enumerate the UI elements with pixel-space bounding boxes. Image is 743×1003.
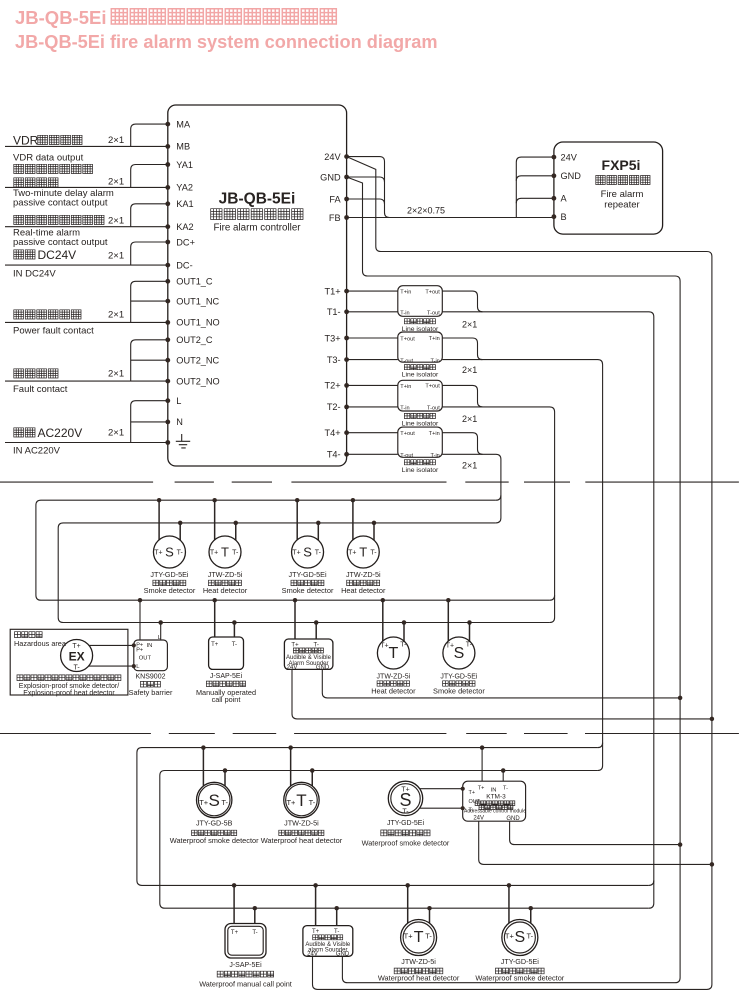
svg-text:2×1: 2×1 [462, 460, 477, 470]
wire sounder4 T+ tap [315, 885, 317, 925]
wire OUT2 group mid [131, 359, 168, 361]
svg-text:2×1: 2×1 [108, 135, 124, 146]
terminal FB dot [344, 215, 349, 220]
terminal MB dot [165, 144, 170, 149]
wire U3 fan into row-2 T+ bus [550, 595, 555, 600]
wire AC220V group mid [131, 421, 168, 423]
svg-text:T+: T+ [231, 930, 239, 936]
junction detector D12 (Heat detector) T- tap [234, 521, 239, 526]
terminal OUT1_NC dot [165, 299, 170, 304]
svg-text:Power fault contact: Power fault contact [13, 326, 94, 337]
wire KNS9002 IN tap [139, 600, 141, 640]
wire U4 top output elbow [442, 433, 482, 455]
svg-text:2×2×0.75: 2×2×0.75 [407, 206, 445, 216]
wire controller to U2 top [347, 337, 398, 339]
svg-text:T: T [296, 791, 306, 810]
terminal FA dot [344, 197, 349, 202]
svg-text:T+in: T+in [400, 290, 411, 296]
svg-text:GND: GND [561, 171, 582, 181]
svg-text:passive contact output: passive contact output [13, 198, 108, 209]
svg-text:24V: 24V [324, 152, 341, 162]
wire spare loop B (broken line y=733.5) [0, 733, 739, 735]
label IN DC24V (CN) [14, 250, 35, 259]
svg-text:Heat detector: Heat detector [203, 586, 248, 595]
svg-text:T+: T+ [210, 550, 218, 557]
junction KTM-3 T- on bus [501, 768, 506, 773]
svg-text:FA: FA [329, 194, 341, 204]
svg-text:Waterproof smoke detector: Waterproof smoke detector [475, 973, 564, 982]
svg-text:P+: P+ [136, 648, 143, 654]
wire waterproof detector D41 (Waterproof heat detector) T- tap [429, 908, 431, 923]
terminal YA1 dot [165, 162, 170, 167]
waterproof detector D41 (Waterproof heat detector) outer circle [401, 920, 437, 956]
svg-text:T+: T+ [380, 642, 388, 649]
junction J-SAP T+ on bus [212, 598, 217, 603]
svg-text:S: S [209, 791, 220, 810]
junction waterproof detector D31 (Waterproof smoke detector) T+ tap [201, 745, 206, 750]
wire waterproof detector D42 (Waterproof smoke detector) T- tap [530, 908, 532, 923]
wire detector D13 (Smoke detector) T- tap [317, 523, 319, 540]
terminal L dot [165, 398, 170, 403]
svg-text:S: S [454, 645, 465, 662]
wire row-3 T+ bus joining row-4 T+ bus (left drop) [137, 748, 649, 886]
svg-text:L: L [136, 664, 140, 670]
wire EX T+ to safety barrier [89, 644, 134, 646]
wire detector D13 (Smoke detector) T+ tap [296, 500, 298, 540]
wire repeater-side bundle fan vertical [516, 157, 554, 217]
waterproof smoke detector (to KTM-3) outer circle [388, 781, 422, 815]
svg-text:YA2: YA2 [176, 183, 193, 193]
svg-text:call point: call point [212, 695, 241, 704]
repeater terminal 24V dot [552, 155, 557, 160]
svg-text:FB: FB [329, 213, 341, 223]
wire J-SAP T- tap [233, 623, 235, 638]
junction waterproof detector D42 (Waterproof smoke detector) T+ tap [507, 883, 512, 888]
wire waterproof detector D32 (Waterproof heat detector) T- tap [311, 771, 313, 787]
terminal N dot [165, 420, 170, 425]
waterproof detector D32 (Waterproof heat detector) outer circle [284, 782, 319, 817]
svg-text:J-SAP-5Ei: J-SAP-5Ei [210, 673, 243, 680]
safety barrier KNS9002 box [134, 640, 168, 671]
KNS9002 left terminal T+ dot [132, 643, 136, 647]
wire FA into bundle [347, 199, 385, 204]
svg-text:24V: 24V [307, 952, 318, 958]
terminal GND dot [344, 175, 349, 180]
label VDR data output (CN) [0, 0, 1, 1]
terminal T2+ dot [344, 383, 349, 388]
svg-text:JB-QB-5Ei: JB-QB-5Ei [15, 7, 107, 28]
svg-text:JTY-GD-5Ei: JTY-GD-5Ei [501, 957, 539, 966]
junction waterproof detector D41 (Waterproof heat detector) T- tap [427, 906, 432, 911]
wire sounder4 T- tap [336, 908, 338, 925]
wire WP call point T+ tap [233, 885, 235, 923]
svg-text:T-: T- [314, 642, 319, 648]
svg-text:OUT1_NO: OUT1_NO [176, 318, 219, 328]
svg-text:T3+: T3+ [325, 333, 341, 343]
junction detector D21 (Heat detector) T+ tap [381, 598, 386, 603]
svg-text:T-out: T-out [427, 311, 440, 317]
svg-text:passive contact output: passive contact output [13, 237, 108, 248]
svg-text:T+in: T+in [429, 336, 440, 342]
junction detector D21 (Heat detector) T- tap [402, 620, 407, 625]
alarm sounder (row 4) box [303, 926, 353, 957]
junction sounder T+ on bus [293, 598, 298, 603]
svg-text:B: B [561, 212, 567, 222]
svg-text:FXP5i: FXP5i [602, 157, 641, 173]
svg-text:T-in: T-in [400, 406, 409, 412]
wire OUT2 group top [131, 340, 168, 381]
KNS9002 left terminal T- dot [132, 664, 136, 668]
detector D11 (Smoke detector) circle [153, 536, 185, 568]
label Hazardous area [15, 632, 43, 638]
wire row-1 T- bus joining row-2 T- bus (left drop) [58, 523, 549, 623]
svg-text:T-: T- [527, 932, 534, 941]
junction detector D13 (Smoke detector) T- tap [316, 521, 321, 526]
svg-text:Waterproof smoke detector: Waterproof smoke detector [362, 838, 450, 847]
wire U4 output bundle down to row-1 buses [442, 454, 501, 523]
junction KNS9002 L on T- bus [158, 620, 163, 625]
svg-text:Explosion-proof smoke detector: Explosion-proof smoke detector/ [19, 683, 119, 690]
terminal PE (protective earth) dot [165, 440, 170, 445]
junction KTM-3 24V on 24V bus [710, 862, 715, 867]
wire U3 output bundle down to row-2 buses [442, 407, 554, 623]
wire waterproof detector D32 (Waterproof heat detector) T+ tap [290, 748, 292, 786]
svg-text:T+out: T+out [400, 431, 415, 437]
wire GND power from controller to bottom sounder [342, 177, 680, 983]
svg-text:KA1: KA1 [176, 199, 193, 209]
line isolator U3 box [398, 380, 443, 411]
svg-text:T+: T+ [286, 798, 296, 807]
svg-text:T+: T+ [312, 929, 320, 935]
wire sounder T- tap [315, 623, 317, 640]
svg-text:MB: MB [176, 142, 190, 152]
svg-text:T2+: T2+ [325, 381, 341, 391]
repeater terminal B dot [552, 214, 557, 219]
junction detector D14 (Heat detector) T+ tap [351, 498, 356, 503]
svg-text:Smoke detector: Smoke detector [433, 687, 485, 696]
wire detector D21 (Heat detector) T+ tap [382, 600, 384, 641]
wire controller to U4 bottom [347, 453, 398, 455]
terminal T3+ dot [344, 336, 349, 341]
svg-text:L: L [176, 396, 181, 406]
wire row-1 T+ bus joining row-2 T+ bus (left drop) [36, 500, 550, 600]
junction sounder GND on GND bus [678, 696, 683, 701]
junction detector D11 (Smoke detector) T- tap [178, 521, 183, 526]
wire KTM-3 T+ tap [481, 748, 483, 782]
wire KNS9002 L tap [160, 623, 162, 641]
wire detector D14 (Heat detector) T- tap [373, 523, 375, 540]
manual call point J-SAP-5Ei box [209, 637, 244, 669]
svg-text:Waterproof heat detector: Waterproof heat detector [378, 973, 460, 982]
wire KA1/KA2 group top [131, 204, 168, 227]
KTM-3 left T+ dot [461, 787, 465, 791]
terminal DC- dot [165, 263, 170, 268]
svg-text:T-: T- [232, 550, 239, 557]
wire detector T+ to KTM-3 OUT [420, 788, 463, 790]
svg-text:JTY-GD-5Ei: JTY-GD-5Ei [289, 570, 327, 579]
svg-text:T+: T+ [211, 642, 219, 648]
svg-text:T-in: T-in [430, 358, 439, 364]
junction KTM-3 T+ on bus [480, 745, 485, 750]
svg-text:T+in: T+in [400, 384, 411, 390]
input/output module KTM-3 box [463, 781, 526, 821]
svg-text:DC-: DC- [176, 260, 192, 270]
svg-text:AC220V: AC220V [38, 426, 83, 440]
wire controller to U4 top [347, 432, 398, 434]
wire J-SAP T+ tap [214, 600, 216, 637]
svg-text:KA2: KA2 [176, 222, 193, 232]
svg-text:JTW-ZD-5i: JTW-ZD-5i [208, 570, 243, 579]
wire WP call point T- tap [254, 908, 256, 923]
hazardous area box [10, 629, 128, 695]
terminal OUT2_NC dot [165, 358, 170, 363]
wire detector D22 (Smoke detector) T- tap [469, 623, 471, 642]
svg-text:2×1: 2×1 [462, 319, 477, 329]
terminal T2- dot [344, 405, 349, 410]
svg-text:GND: GND [506, 816, 520, 822]
wire waterproof detector D42 (Waterproof smoke detector) T+ tap [508, 885, 510, 923]
svg-text:T-: T- [334, 929, 339, 935]
line isolator U4 box [398, 427, 443, 457]
svg-text:T3-: T3- [327, 355, 341, 365]
svg-text:JB-QB-5Ei fire alarm system co: JB-QB-5Ei fire alarm system connection d… [15, 32, 438, 52]
svg-text:Heat detector: Heat detector [371, 687, 416, 696]
terminal OUT2_C dot [165, 337, 170, 342]
svg-text:2×1: 2×1 [462, 414, 477, 424]
svg-text:JTW-ZD-5i: JTW-ZD-5i [284, 819, 319, 828]
svg-text:OUT: OUT [139, 655, 152, 661]
wire U2 fan into row-3 T+ bus [598, 743, 603, 748]
wire YA1/YA2 group top [131, 165, 168, 188]
svg-text:T-: T- [400, 642, 407, 649]
wire sounder T+ tap [294, 600, 296, 639]
svg-text:T-out: T-out [400, 453, 413, 459]
svg-text:S: S [165, 545, 174, 560]
svg-text:VDR: VDR [13, 134, 39, 148]
fire alarm repeater FXP5i box [554, 142, 663, 234]
wire detector D11 (Smoke detector) T- tap [179, 523, 181, 540]
svg-text:Line isolator: Line isolator [402, 421, 439, 428]
wire waterproof detector D41 (Waterproof heat detector) T+ tap [407, 885, 409, 923]
waterproof detector D31 (Waterproof smoke detector) outer circle [197, 782, 232, 817]
junction J-SAP T- on bus [232, 620, 237, 625]
wire KTM-3 GND to GND bus [510, 821, 680, 844]
U2 label Line isolator [404, 365, 435, 370]
svg-text:Line isolator: Line isolator [402, 467, 439, 474]
wire AC220V bundle / label underline [5, 442, 168, 444]
junction KTM-3 GND on GND bus [678, 842, 683, 847]
svg-text:OUT2_NC: OUT2_NC [176, 356, 219, 366]
detector D22 (Smoke detector) circle [443, 637, 475, 669]
junction detector D22 (Smoke detector) T- tap [467, 620, 472, 625]
svg-text:Safety barrier: Safety barrier [129, 688, 173, 697]
svg-text:T-: T- [252, 930, 257, 936]
wire controller-side bundle fan vertical [347, 157, 390, 218]
svg-text:Heat detector: Heat detector [341, 586, 386, 595]
terminal DC+ dot [165, 240, 170, 245]
svg-text:Fire alarm: Fire alarm [601, 189, 644, 200]
wire YA1/YA2 bundle / label underline [5, 186, 168, 188]
junction detector D13 (Smoke detector) T+ tap [295, 498, 300, 503]
svg-text:Waterproof manual call point: Waterproof manual call point [199, 979, 292, 988]
junction detector D14 (Heat detector) T- tap [372, 521, 377, 526]
svg-text:OUT2_NO: OUT2_NO [176, 376, 219, 386]
label fault contact (CN) [14, 369, 58, 378]
svg-text:T-: T- [315, 550, 322, 557]
terminal YA2 dot [165, 185, 170, 190]
svg-text:T-out: T-out [427, 406, 440, 412]
wire MA/MB group top [131, 124, 168, 146]
svg-text:T-: T- [503, 786, 508, 792]
svg-text:T-: T- [73, 664, 80, 671]
line isolator U1 box [398, 286, 443, 317]
svg-text:2×1: 2×1 [108, 428, 124, 439]
wire fan to repeater A [516, 198, 554, 203]
svg-text:Waterproof heat detector: Waterproof heat detector [261, 836, 343, 845]
wire U1 fan into row-4 T+ bus [649, 880, 654, 885]
wire detector D22 (Smoke detector) T+ tap [447, 600, 449, 641]
U1 label Line isolator [404, 319, 435, 324]
explosion-proof detector EX circle [61, 640, 93, 672]
wire waterproof detector D31 (Waterproof smoke detector) T- tap [224, 771, 226, 787]
svg-text:JTY-GD-5B: JTY-GD-5B [196, 819, 233, 828]
svg-text:A: A [561, 194, 568, 204]
wire sounder(row2) 24V to 24V bus [292, 669, 712, 719]
svg-text:T-: T- [466, 642, 473, 649]
svg-text:MA: MA [176, 119, 191, 129]
junction waterproof detector D41 (Waterproof heat detector) T+ tap [405, 883, 410, 888]
svg-text:Explosion-proof heat detector: Explosion-proof heat detector [23, 690, 115, 697]
junction detector D11 (Smoke detector) T+ tap [157, 498, 162, 503]
svg-text:T+in: T+in [429, 431, 440, 437]
svg-text:Smoke detector: Smoke detector [144, 586, 196, 595]
svg-text:VDR data output: VDR data output [13, 153, 84, 164]
svg-text:JB-QB-5Ei: JB-QB-5Ei [219, 191, 296, 208]
svg-text:2×1: 2×1 [108, 177, 124, 188]
svg-text:T+: T+ [291, 642, 299, 648]
fire alarm controller JB-QB-5Ei box [168, 105, 347, 466]
svg-text:T: T [389, 645, 399, 662]
svg-text:Smoke detector: Smoke detector [282, 586, 334, 595]
wire OUT1 bundle / label underline [5, 321, 168, 323]
svg-text:EX: EX [69, 649, 85, 663]
svg-text:T4+: T4+ [325, 428, 341, 438]
svg-text:T+: T+ [154, 550, 162, 557]
terminal 24V dot [344, 154, 349, 159]
svg-text:T-: T- [370, 550, 377, 557]
wire detector D14 (Heat detector) T+ tap [352, 500, 354, 540]
svg-text:IN DC24V: IN DC24V [13, 269, 56, 280]
svg-text:T-in: T-in [400, 311, 409, 317]
wire OUT1 group top [131, 281, 168, 322]
svg-text:DC+: DC+ [176, 237, 195, 247]
svg-text:Fault contact: Fault contact [13, 384, 68, 395]
terminal T1- dot [344, 309, 349, 314]
repeater terminal A dot [552, 196, 557, 201]
svg-text:T2-: T2- [327, 402, 341, 412]
terminal T4+ dot [344, 430, 349, 435]
svg-text:IN: IN [147, 643, 153, 649]
wire controller to U1 top [347, 290, 398, 292]
junction sounder 24V on 24V bus [710, 717, 715, 722]
wire DC24V group top [131, 242, 168, 265]
wire controller to U3 top [347, 384, 398, 386]
junction detector D22 (Smoke detector) T+ tap [446, 598, 451, 603]
wire AC220V group top [131, 401, 168, 443]
waterproof detector D31 (Waterproof smoke detector) inner circle [198, 784, 230, 816]
wire waterproof detector D31 (Waterproof smoke detector) T+ tap [202, 748, 204, 786]
svg-text:repeater: repeater [604, 200, 639, 211]
svg-text:N: N [176, 417, 183, 427]
svg-text:T+: T+ [469, 790, 476, 796]
label IN AC220V (CN) [14, 428, 35, 437]
svg-text:T+out: T+out [400, 337, 415, 343]
svg-text:2×1: 2×1 [462, 365, 477, 375]
svg-text:JTW-ZD-5i: JTW-ZD-5i [346, 570, 381, 579]
terminal OUT1_C dot [165, 279, 170, 284]
svg-text:T1-: T1- [327, 307, 341, 317]
detector D13 (Smoke detector) circle [292, 536, 324, 568]
junction waterproof detector D32 (Waterproof heat detector) T- tap [310, 768, 315, 773]
wire detector D21 (Heat detector) T- tap [403, 623, 405, 642]
svg-text:T: T [359, 545, 367, 560]
detector D12 (Heat detector) circle [209, 536, 241, 568]
svg-text:T+out: T+out [425, 289, 440, 295]
wire controller to U2 bottom [347, 359, 398, 361]
terminal KA1 dot [165, 201, 170, 206]
waterproof detector D42 (Waterproof smoke detector) outer circle [502, 920, 538, 956]
wire FB to repeater B (4-wire bundle) [347, 217, 554, 219]
waterproof detector D41 (Waterproof heat detector) inner circle [403, 922, 434, 953]
labels explosion-proof smoke/heat detector [17, 675, 121, 681]
svg-text:T+: T+ [478, 786, 485, 792]
svg-text:2×1: 2×1 [108, 251, 124, 262]
waterproof detector D42 (Waterproof smoke detector) inner circle [504, 922, 535, 953]
svg-text:T+: T+ [505, 932, 515, 941]
svg-text:Hazardous area: Hazardous area [14, 639, 67, 648]
label two-minute delay alarm (CN) [14, 164, 93, 173]
alarm sounder (row 2) box [284, 639, 333, 669]
junction sounder4 T+ on bus [313, 883, 318, 888]
U4 label Line isolator [404, 460, 435, 465]
U3 label Line isolator [404, 413, 435, 418]
svg-text:T: T [414, 929, 424, 946]
junction waterproof detector D42 (Waterproof smoke detector) T- tap [529, 906, 534, 911]
svg-text:T-: T- [402, 809, 409, 816]
KTM-3 left T- dot [461, 806, 465, 810]
svg-text:J-SAP-5Ei: J-SAP-5Ei [229, 962, 262, 969]
wire controller to U1 bottom [347, 311, 398, 313]
junction KNS9002 IN on T+ bus [138, 598, 143, 603]
wire U1 output bundle down to row-4 buses [442, 312, 654, 908]
svg-text:T-: T- [232, 642, 237, 648]
waterproof detector D32 (Waterproof heat detector) inner circle [286, 784, 318, 816]
svg-text:Line isolator: Line isolator [402, 372, 439, 379]
wire U4 fan into row-1 T+ bus [496, 495, 501, 500]
ground symbol [176, 434, 190, 448]
wire detector D12 (Heat detector) T- tap [235, 523, 237, 540]
svg-text:T-: T- [221, 798, 228, 807]
wire U2 top output elbow [442, 338, 482, 360]
svg-text:T+: T+ [292, 550, 300, 557]
junction sounder T- on bus [314, 620, 319, 625]
terminal T1+ dot [344, 289, 349, 294]
svg-text:OUT2_C: OUT2_C [176, 335, 213, 345]
waterproof manual call point inner box [228, 926, 263, 955]
waterproof manual call point J-SAP-5Ei outer box [225, 924, 266, 959]
wire MA/MB bundle / label underline [5, 145, 168, 147]
svg-text:OUT: OUT [469, 799, 481, 805]
